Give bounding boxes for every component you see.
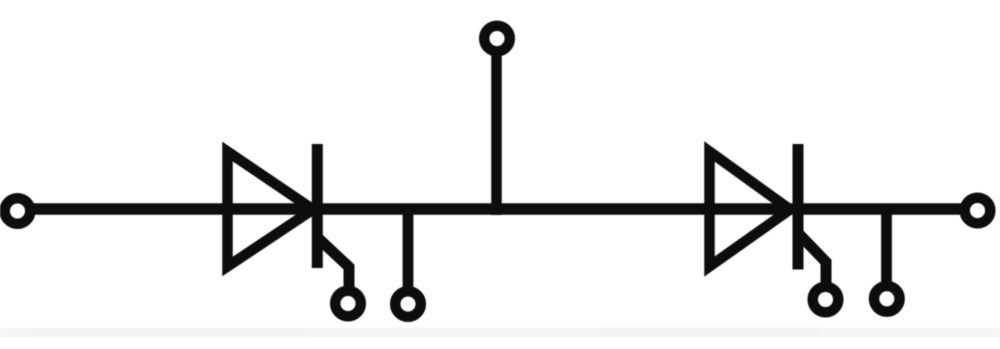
faint scan artifact band at bottom (0, 328, 1000, 337)
thyristor V1 triangle (228, 152, 314, 267)
wire: V2 auxiliary cathode lead (881, 210, 892, 291)
wire: center terminal lead (491, 38, 502, 215)
thyristor V2 triangle (710, 152, 791, 267)
wire: main horizontal bus (17, 203, 978, 215)
wire: V1 auxiliary cathode lead (403, 210, 414, 296)
wire: V1 gate lead (318, 238, 349, 293)
terminal G2 circle (813, 287, 839, 313)
terminal 3 (center) circle (484, 26, 510, 52)
terminal G1 circle (335, 291, 361, 317)
thyristor V2 cathode bar (793, 144, 804, 270)
terminal K2 circle (874, 286, 900, 312)
terminal K1 circle (395, 291, 421, 317)
terminal 1 (left anode) circle (5, 198, 31, 224)
wire: V2 gate lead (799, 234, 826, 289)
thyristor V1 cathode bar (312, 144, 323, 268)
terminal 2 (right cathode) circle (965, 198, 991, 224)
